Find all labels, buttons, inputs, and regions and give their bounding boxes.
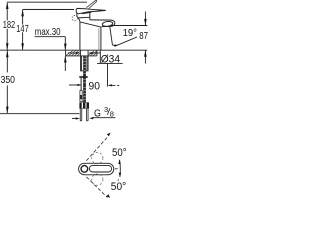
svg-text:50°: 50° xyxy=(111,181,126,193)
svg-text:G: G xyxy=(94,108,101,120)
svg-text:147: 147 xyxy=(16,23,29,34)
svg-text:19°: 19° xyxy=(123,28,138,39)
svg-text:50°: 50° xyxy=(112,147,127,159)
svg-text:90: 90 xyxy=(89,80,101,92)
svg-text:182: 182 xyxy=(3,19,16,30)
svg-text:350: 350 xyxy=(1,74,15,85)
svg-text:3: 3 xyxy=(104,105,108,114)
svg-text:Ø34: Ø34 xyxy=(101,53,120,66)
svg-text:87: 87 xyxy=(139,30,148,41)
svg-text:8: 8 xyxy=(110,110,114,119)
svg-text:max.30: max.30 xyxy=(35,26,61,37)
